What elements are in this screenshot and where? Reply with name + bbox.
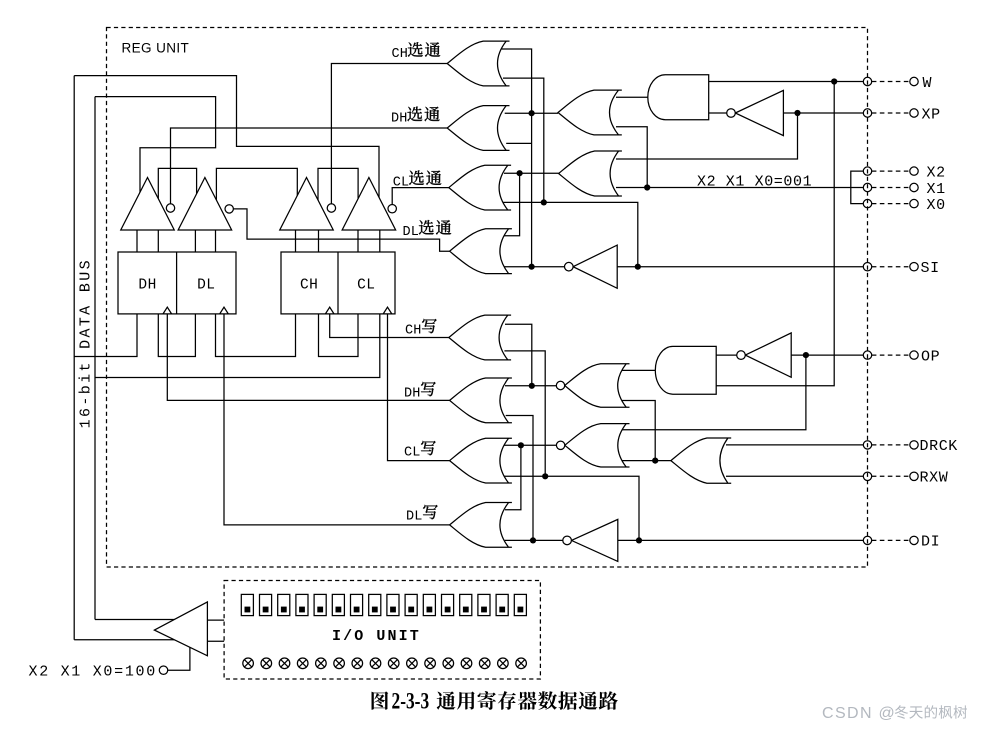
- or-gate G9: [671, 438, 731, 483]
- enable bubble U1: [166, 204, 174, 212]
- or-gate DL-write: [450, 503, 512, 548]
- terminal X0: [863, 199, 871, 207]
- svg-text:CH: CH: [405, 323, 422, 338]
- node DIrow/DHwrite-in2: [530, 537, 536, 543]
- enable bubble U2: [225, 205, 233, 213]
- wire: inverter N1 output to AND A1: [709, 112, 727, 114]
- caption 图 2-3-3 通用寄存器数据通路: [372, 691, 389, 709]
- svg-text:2-3-3: 2-3-3: [392, 689, 430, 714]
- wire: DI line to inverter N4 input: [618, 539, 863, 541]
- node DHwrite-in1/V-C: [529, 383, 535, 389]
- I/O unit socket terminals: [243, 658, 254, 669]
- register DH/DL box: [118, 252, 236, 314]
- enable bubble U4: [388, 205, 396, 213]
- clock wedge CH: [325, 307, 334, 314]
- wire: DRCK line to OR G9 input 1: [726, 444, 863, 446]
- wire: bus2 top branch to buffer U1 input stub: [95, 97, 216, 195]
- tri-state buffer U3 (CH): [280, 178, 334, 231]
- clock wedge CL: [383, 307, 392, 314]
- svg-text:DH: DH: [404, 386, 421, 401]
- svg-text:DH: DH: [138, 277, 156, 293]
- tri-state buffer U1 (DH): [121, 178, 175, 231]
- wire: U5 to I/O unit pin 1: [207, 619, 224, 621]
- node XP/G6 branch: [794, 110, 800, 116]
- I/O bus driver U5: [154, 602, 207, 656]
- wire: CH-select input 2 / net V-B vertical: [503, 78, 544, 202]
- svg-text:OP: OP: [921, 348, 940, 365]
- node: junction to DL-select input 1: [505, 173, 520, 236]
- wire: U1 outputs to DH register: [136, 230, 138, 252]
- wire: RXW line to OR G9 input 2: [726, 475, 863, 477]
- wire: CH-write input 1 / net V-C vertical: [505, 324, 532, 386]
- wire: NOR G8 output to CL-write input 1: [504, 444, 556, 446]
- wire: data bus line 1 (left vertical): [73, 76, 75, 640]
- svg-text:XP: XP: [922, 106, 941, 123]
- node SI/CLsel branch: [635, 264, 641, 270]
- tri-state buffer U2 (DL): [178, 178, 232, 231]
- node SI-row/V-A: [529, 264, 535, 270]
- svg-text:REG UNIT: REG UNIT: [122, 41, 190, 56]
- wire: bridge DH-DL register outputs: [158, 314, 195, 357]
- and-gate A2: [655, 346, 716, 394]
- wire: bridge U1-U2 input stubs: [158, 168, 196, 200]
- wire: U5 to I/O unit pin 2: [207, 640, 224, 642]
- wire: bridge DL-CH register outputs: [216, 314, 296, 357]
- wire: DH-write input 2 to DI-row node: [506, 416, 533, 541]
- inverter N3: [745, 333, 791, 377]
- wire: X2-X1-X0 bracket: [851, 171, 863, 204]
- wire: bus2 to CL register output: [95, 314, 380, 378]
- node G9out/G7-in2: [652, 458, 658, 464]
- wire: NOR G7 input 2 to G9-output node: [621, 401, 655, 461]
- wire: CH-select output to U3 enable bubble: [331, 64, 447, 205]
- svg-text:DL: DL: [406, 509, 423, 524]
- nor-gate G8: [565, 424, 630, 467]
- I/O UNIT dashed border: [224, 581, 540, 680]
- wire: OR G9 output to NOR G8 input 2: [621, 460, 671, 462]
- wire: inverter N3 output to AND A2 input 1: [716, 354, 737, 356]
- wire: DL-select output to U2 enable bubble: [233, 209, 449, 251]
- wire: DL-write output to DL register clock: [224, 314, 450, 525]
- and-gate A1: [648, 75, 709, 120]
- wire: U3 outputs to CH register: [295, 230, 297, 252]
- clock wedge DH: [163, 307, 172, 314]
- node OP/G8 branch: [803, 352, 809, 358]
- U5 enable terminal circle: [159, 666, 167, 674]
- wire: CL-select output to U4 enable bubble: [392, 188, 449, 205]
- wire: OR G6 input 1 to XP branch: [616, 113, 798, 159]
- register CH/CL box: [281, 252, 395, 314]
- wire: DH-select input 2 stub: [506, 142, 531, 144]
- wire: U2 outputs to DL register: [194, 230, 196, 252]
- wire: NOR G7 output to DH-write input 1: [505, 385, 556, 387]
- svg-text:CH: CH: [300, 277, 318, 293]
- svg-text:CH: CH: [392, 47, 409, 62]
- clock wedge DL: [220, 307, 229, 314]
- wire: bridge U2-U3 input stubs: [216, 168, 297, 202]
- wire: DH-select output to U1 enable bubble: [171, 128, 448, 204]
- wire: CL-write output to CL register clock: [388, 314, 450, 461]
- node CLwrite-in1/DLwrite branch: [518, 442, 524, 448]
- terminal X2: [863, 167, 871, 175]
- terminal DRCK: [863, 441, 871, 449]
- svg-text:CL: CL: [393, 175, 410, 190]
- wire: SI line to inverter N2 input: [617, 266, 863, 268]
- wire: U4 outputs to CL register: [357, 230, 359, 252]
- terminal RXW: [863, 472, 871, 480]
- inverter N1: [735, 90, 783, 135]
- svg-text:DI: DI: [921, 534, 940, 551]
- wire: OR G5 output to DH-select input 1: [505, 112, 558, 114]
- or-gate CL-write: [450, 438, 512, 483]
- wire: data bus line 2 (left vertical): [94, 97, 96, 620]
- wire: CL-select input 2 to SI branch: [502, 202, 638, 266]
- terminal W: [863, 77, 871, 85]
- wire: CH-write input 2 to RXW-branch node: [504, 351, 545, 476]
- wire: OP line to inverter N3 input: [791, 354, 863, 356]
- or-gate G5: [558, 90, 622, 135]
- node DI/CLwrite branch: [636, 537, 642, 543]
- wire: CH-write output to CH register clock: [330, 314, 449, 338]
- wire: X1 line to OR G6 input 2: [616, 187, 863, 189]
- wire: bridge U3-U4 input stubs: [318, 168, 358, 202]
- or-gate DH-select: [447, 106, 509, 151]
- node X1/G5-in2: [644, 184, 650, 190]
- svg-text:X1: X1: [927, 181, 946, 198]
- wire: U5 enable from X2X1X0=100 terminal: [168, 646, 190, 670]
- svg-text:X2: X2: [927, 164, 946, 181]
- svg-text:16-bit DATA BUS: 16-bit DATA BUS: [78, 258, 95, 428]
- svg-text:CL: CL: [357, 277, 375, 293]
- or-gate G6: [559, 151, 622, 196]
- or-gate CL-select: [449, 165, 511, 210]
- node G6out/DL-select branch: [517, 170, 523, 176]
- wire: XP line to inverter N1 input: [783, 112, 863, 114]
- wire: W branch down to AND A2 input 2: [716, 82, 834, 386]
- svg-text:CSDN: CSDN: [822, 705, 873, 722]
- svg-text:DL: DL: [403, 225, 420, 240]
- wire: bus1 to DH register output: [74, 314, 137, 357]
- terminal OP: [863, 351, 871, 359]
- svg-text:X2 X1 X0=100: X2 X1 X0=100: [29, 664, 157, 681]
- node RXW-branch/CHwrite-in2: [542, 473, 548, 479]
- enable bubble U3: [327, 204, 335, 212]
- svg-text:RXW: RXW: [920, 470, 949, 487]
- svg-text:@: @: [879, 705, 895, 722]
- node CLsel-in2/V-B: [541, 199, 547, 205]
- label 16-bit DATA BUS: [78, 258, 95, 428]
- svg-text:DL: DL: [197, 277, 215, 293]
- nor-gate G7: [565, 364, 630, 407]
- or-gate CH-select: [447, 41, 509, 86]
- node: junction to DL-write input 1: [505, 445, 521, 510]
- wire: bus1 to I/O driver U5: [74, 639, 175, 641]
- or-gate CH-write: [449, 315, 511, 360]
- terminal SI: [863, 263, 871, 271]
- wire: W line from AND A1: [709, 81, 864, 83]
- terminal X1: [863, 183, 871, 191]
- node W/AND2 branch: [831, 78, 837, 84]
- wire: bridge CH-CL register outputs: [319, 314, 359, 357]
- svg-text:DH: DH: [391, 112, 408, 127]
- I/O unit pin headers: [241, 594, 253, 615]
- terminal DI: [863, 536, 871, 544]
- wire: DH-write output to DH register clock: [167, 314, 449, 401]
- wire: CH-select input 1 / net V-A vertical: [502, 49, 532, 267]
- wire: bus2 to I/O driver U5: [95, 619, 176, 621]
- svg-text:I/O UNIT: I/O UNIT: [332, 628, 421, 645]
- svg-text:W: W: [923, 75, 933, 92]
- wire: OR G6 output to CL-select input 1: [504, 172, 559, 174]
- svg-text:CL: CL: [404, 445, 421, 460]
- wire: OP branch to NOR G8 input 1: [621, 355, 806, 430]
- REG UNIT dashed border: [107, 28, 868, 568]
- node G5out/V-A: [529, 110, 535, 116]
- wire: inverter N4 output to DL-write input 2: [505, 539, 563, 541]
- svg-text:X2 X1 X0=001: X2 X1 X0=001: [697, 173, 812, 190]
- wire: AND A1 output to OR G5 input 1: [616, 96, 648, 98]
- tri-state buffer U4 (CL): [342, 178, 396, 231]
- wire: NOR G7 input 1 to AND A2 output: [621, 369, 658, 371]
- wire: inverter N2 output to DL-select input 2: [500, 266, 564, 268]
- wire: bus1 top branch to buffer U4 input stub: [74, 76, 379, 200]
- terminal XP: [863, 109, 871, 117]
- inverter N2: [573, 245, 617, 288]
- svg-text:DRCK: DRCK: [920, 438, 958, 455]
- wire: DI branch up to CL-write input 2: [503, 476, 639, 540]
- inverter N4: [571, 519, 617, 561]
- or-gate DH-write: [450, 378, 512, 423]
- svg-text:SI: SI: [921, 260, 940, 277]
- wire: OR G5 input 2 to X1 node: [616, 127, 647, 188]
- or-gate DL-select: [450, 229, 512, 274]
- svg-text:X0: X0: [927, 197, 946, 214]
